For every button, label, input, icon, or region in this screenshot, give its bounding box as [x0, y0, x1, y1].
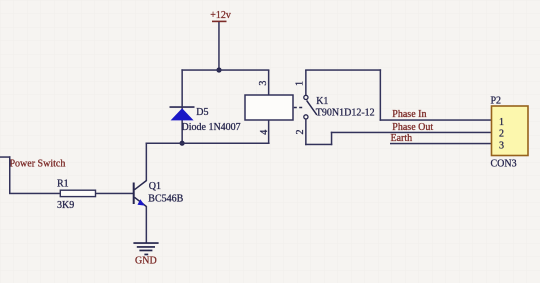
relay K1 switch bottom contact circle [304, 115, 308, 119]
wire power switch top horizontal [0, 156, 11, 158]
wire pin1 top horizontal [305, 69, 381, 71]
svg-text:Phase In: Phase In [392, 109, 426, 120]
svg-text:1: 1 [499, 117, 504, 128]
transistor Q1 symbol [133, 181, 147, 207]
wire Phase In horizontal [380, 119, 492, 121]
svg-text:R1: R1 [57, 179, 69, 190]
wire resistor to transistor base [96, 193, 134, 195]
svg-text:D5: D5 [196, 107, 208, 118]
wire power switch vertical [9, 156, 11, 194]
wire collector vertical [146, 143, 148, 182]
svg-text:4: 4 [259, 130, 270, 135]
wire pin2 bottom horizontal [305, 144, 332, 146]
wire right vertical to Phase In [380, 69, 382, 121]
wire Earth horizontal [390, 143, 492, 145]
svg-text:Earth: Earth [391, 133, 413, 144]
svg-text:3K9: 3K9 [57, 200, 74, 211]
wire +12v vertical [218, 22, 220, 70]
relay K1 coil box [245, 95, 293, 120]
wire top-left horizontal (diode top to coil pin 3) [181, 69, 269, 71]
svg-text:CON3: CON3 [491, 159, 517, 170]
svg-text:T90N1D12-12: T90N1D12-12 [316, 108, 375, 119]
svg-text:Phase Out: Phase Out [392, 122, 433, 133]
wire emitter vertical [146, 206, 148, 243]
relay K1 switch blade [307, 100, 317, 115]
wire Phase Out horizontal [331, 132, 492, 134]
junction dot at +12v tap [216, 67, 221, 72]
diode D5 symbol [170, 106, 195, 120]
relay K1 dashed actuator link [294, 107, 304, 109]
connector P2 body [492, 106, 529, 156]
svg-text:Power Switch: Power Switch [10, 159, 66, 170]
svg-text:3: 3 [499, 140, 504, 151]
svg-text:2: 2 [295, 130, 306, 135]
resistor R1 body [60, 190, 95, 196]
relay K1 switch pin 1 wire [305, 70, 307, 96]
wire diode vertical [181, 69, 183, 144]
svg-text:K1: K1 [316, 96, 328, 107]
wire bottom horizontal (collector to coil pin 4) [146, 143, 270, 145]
svg-text:Q1: Q1 [149, 181, 161, 192]
svg-text:+12v: +12v [210, 10, 231, 21]
ground symbol [133, 242, 158, 255]
relay K1 coil pin 3 wire [268, 70, 270, 96]
relay K1 switch top contact circle [304, 95, 308, 99]
relay K1 coil pin 4 wire [268, 120, 270, 144]
relay K1 switch pin 2 wire [305, 119, 307, 145]
svg-text:BC546B: BC546B [148, 194, 183, 205]
svg-text:1: 1 [295, 81, 306, 86]
svg-text:Diode 1N4007: Diode 1N4007 [182, 122, 241, 133]
svg-text:GND: GND [135, 256, 157, 267]
wire to resistor R1 [9, 193, 61, 195]
junction dot at diode bottom [180, 141, 185, 146]
svg-text:3: 3 [258, 81, 269, 86]
svg-text:P2: P2 [491, 96, 502, 107]
svg-text:2: 2 [499, 129, 504, 140]
wire step vertical [331, 132, 333, 146]
power port +12v [210, 10, 231, 22]
